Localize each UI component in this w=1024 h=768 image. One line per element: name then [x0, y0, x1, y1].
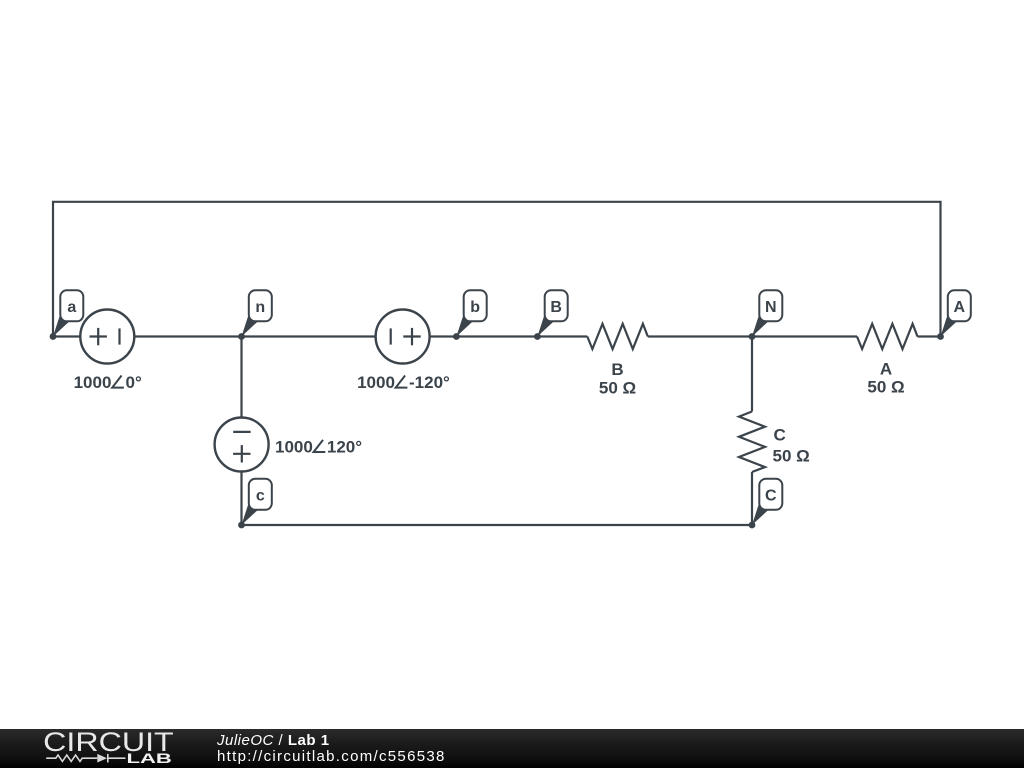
resistor B zigzag	[587, 324, 648, 349]
node a dot	[50, 333, 57, 340]
svg-text:1000: 1000	[275, 437, 313, 456]
wire top loop from node a to node A	[53, 202, 941, 337]
node b dot	[453, 333, 460, 340]
wire b to B	[456, 335, 537, 337]
wire n to V2	[242, 335, 376, 337]
voltage source V3 1000&#8736;120&#176;	[215, 418, 269, 472]
logo resistor and diode	[46, 754, 125, 763]
svg-text:50 Ω: 50 Ω	[599, 378, 636, 397]
svg-text:C: C	[765, 488, 777, 505]
voltage source V2 1000&#8736;-120&#176;	[376, 310, 430, 364]
wire N down to resistor C	[751, 337, 753, 412]
flag label node C	[752, 479, 782, 525]
value label V2 1000 angle -120 deg	[357, 373, 450, 392]
wire B to resistor B	[537, 335, 587, 337]
node B dot	[534, 333, 541, 340]
resistor C zigzag	[739, 412, 765, 473]
flag label node B	[537, 290, 567, 336]
footer bar	[0, 729, 1024, 768]
svg-text:C: C	[774, 426, 786, 445]
svg-text:1000: 1000	[357, 373, 395, 392]
footer title and url	[217, 733, 446, 765]
flag label node a	[53, 290, 83, 336]
circuitlab logo	[42, 729, 182, 768]
wire resistor B to N	[648, 335, 752, 337]
svg-text:A: A	[954, 299, 966, 316]
value label V3 1000 angle 120 deg	[275, 437, 362, 456]
svg-text:120°: 120°	[327, 437, 362, 456]
svg-text:a: a	[67, 299, 76, 316]
svg-text:50 Ω: 50 Ω	[867, 378, 904, 397]
wire n down to V3	[240, 337, 242, 418]
svg-text:A: A	[880, 360, 892, 379]
node n dot	[238, 333, 245, 340]
wire a to V1	[53, 335, 80, 337]
svg-text:B: B	[611, 360, 623, 379]
value label V1 1000 angle 0 deg	[74, 373, 142, 392]
wire resistor C to C	[751, 472, 753, 525]
svg-text:c: c	[256, 488, 265, 505]
wire N to resistor A	[752, 335, 857, 337]
voltage source V1 1000&#8736;0&#176;	[80, 310, 134, 364]
svg-text:N: N	[765, 299, 777, 316]
svg-text:-120°: -120°	[409, 373, 450, 392]
svg-text:b: b	[470, 299, 480, 316]
wire V1 to n	[134, 335, 241, 337]
node c dot	[238, 522, 245, 529]
svg-text:n: n	[255, 299, 265, 316]
svg-text:LAB: LAB	[127, 750, 172, 766]
svg-text:0°: 0°	[126, 373, 142, 392]
svg-text:B: B	[550, 299, 562, 316]
flag label node b	[456, 290, 486, 336]
node A dot	[937, 333, 944, 340]
svg-text:1000: 1000	[74, 373, 112, 392]
node N dot	[749, 333, 756, 340]
resistor A zigzag	[857, 324, 918, 349]
wire c to C	[242, 524, 753, 526]
flag label node A	[941, 290, 971, 336]
wire V2 to b	[430, 335, 457, 337]
svg-text:50 Ω: 50 Ω	[773, 446, 810, 465]
wire resistor A to A	[918, 335, 941, 337]
flag label node n	[242, 290, 272, 336]
wire V3 to c	[240, 472, 242, 526]
node C dot	[749, 522, 756, 529]
flag label node N	[752, 290, 782, 336]
flag label node c	[242, 479, 272, 525]
